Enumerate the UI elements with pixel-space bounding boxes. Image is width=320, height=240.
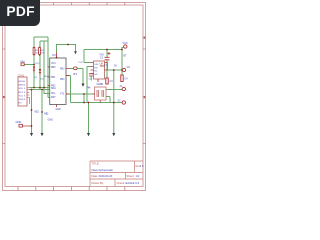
resistor R2 bbox=[39, 48, 41, 55]
pin flag VOUT bbox=[122, 68, 125, 71]
connector J1 pin stubs bbox=[27, 88, 30, 98]
frame row label left B bbox=[3, 96, 5, 98]
svg-text:1/1: 1/1 bbox=[136, 174, 140, 178]
svg-text:RST: RST bbox=[51, 97, 56, 99]
svg-text:VIN: VIN bbox=[94, 64, 98, 66]
svg-text:CON1: CON1 bbox=[18, 74, 25, 77]
IC U1 pin labels bbox=[51, 55, 65, 111]
svg-text:10u: 10u bbox=[104, 65, 108, 67]
svg-text:JP1: JP1 bbox=[73, 73, 78, 76]
gnd arrow b3 bbox=[87, 133, 90, 136]
svg-text:VCC: VCC bbox=[79, 62, 84, 64]
jumper JP1 bbox=[74, 67, 78, 70]
svg-text:VCC: VCC bbox=[51, 63, 56, 65]
wire vcc column x122 bbox=[121, 50, 123, 76]
svg-text:IN: IN bbox=[88, 87, 91, 90]
wire resistor column 1 bbox=[33, 37, 35, 88]
capacitor C2 bbox=[89, 74, 94, 76]
pin flag VCC top right bbox=[124, 45, 127, 48]
wire input cap column bbox=[106, 50, 108, 79]
regulator U2 pin stubs bbox=[91, 63, 108, 74]
svg-text:N$1: N$1 bbox=[35, 111, 40, 114]
regulator U2 pin labels bbox=[94, 64, 98, 76]
capacitor C4 bbox=[121, 75, 123, 82]
wire gnd column left B bbox=[41, 90, 43, 134]
svg-text:RST: RST bbox=[45, 76, 50, 78]
svg-text:5V: 5V bbox=[114, 65, 117, 68]
wire vcc flag stub bbox=[122, 48, 124, 50]
svg-text:BT: BT bbox=[124, 55, 128, 58]
gnd arrow top bbox=[74, 51, 77, 54]
wire IC top pin to gnd rail bbox=[57, 45, 76, 53]
svg-text:2019-03-20: 2019-03-20 bbox=[99, 174, 113, 178]
svg-text:SDA: SDA bbox=[51, 87, 56, 90]
svg-text:VCC: VCC bbox=[35, 63, 40, 65]
gnd arrow b1 bbox=[30, 133, 33, 136]
wire SDA rail bbox=[30, 87, 51, 89]
svg-text:RST: RST bbox=[19, 92, 24, 94]
wire SCL rail bbox=[30, 89, 51, 91]
title block bbox=[90, 161, 143, 187]
svg-text:EN: EN bbox=[94, 67, 97, 69]
wire IC pin down and across bbox=[67, 76, 123, 103]
PDF badge bbox=[0, 0, 40, 26]
regulator U2 bbox=[94, 61, 105, 79]
svg-text:SCL: SCL bbox=[51, 93, 56, 95]
frame row label right A bbox=[144, 37, 146, 39]
svg-text:C4: C4 bbox=[125, 78, 129, 81]
svg-text:D1: D1 bbox=[35, 77, 39, 79]
wire supply drop to regulator bbox=[84, 50, 91, 63]
wire regulator input column bbox=[87, 67, 91, 103]
svg-text:NC: NC bbox=[94, 71, 98, 73]
wire resistor column 2 bbox=[39, 41, 41, 90]
svg-text:VIN: VIN bbox=[100, 53, 104, 56]
svg-text:N$2: N$2 bbox=[44, 113, 49, 116]
pin flag XT1 bbox=[122, 87, 125, 90]
resistor R1 bbox=[33, 48, 35, 55]
IC U1 top pin stub bbox=[56, 52, 58, 58]
frame column ticks top bbox=[54, 3, 125, 6]
IC U1 bottom pin stub bbox=[56, 105, 58, 108]
connector J1 bbox=[18, 77, 27, 106]
net flag VIN bbox=[20, 60, 24, 65]
svg-text:GND: GND bbox=[48, 119, 54, 122]
wire IC right pin to jumper bbox=[70, 69, 84, 84]
connector J1 bottom stub bbox=[29, 98, 31, 105]
capacitor C2 wire bbox=[90, 76, 92, 81]
pin flag XT2 bbox=[122, 101, 125, 104]
gnd arrow mid bbox=[82, 84, 85, 87]
svg-text:VCC: VCC bbox=[123, 42, 128, 45]
crystal Y1 bbox=[93, 87, 107, 103]
diode D2 on column bbox=[33, 67, 35, 71]
frame column ticks bottom bbox=[18, 187, 125, 191]
wire crystal out A bbox=[106, 89, 122, 91]
frame row ticks right bbox=[143, 49, 146, 144]
wire crystal out B bbox=[106, 97, 110, 103]
frame row label right B bbox=[144, 96, 146, 98]
wire gnd column left A bbox=[31, 90, 33, 134]
wire output gnd column bbox=[113, 70, 115, 133]
gnd arrow b2 bbox=[41, 133, 44, 136]
wire column x44 to IC pin bbox=[44, 41, 50, 94]
junction dots bbox=[31, 44, 123, 127]
svg-text:C1: C1 bbox=[100, 57, 104, 60]
wire top supply rail right bbox=[84, 49, 122, 51]
schematic frame inner border bbox=[5, 5, 143, 187]
IC U1 pin stubs left bbox=[48, 67, 51, 86]
svg-text:VO: VO bbox=[127, 66, 131, 69]
svg-text:GND: GND bbox=[56, 109, 61, 111]
IC U1 pin stubs right bbox=[66, 69, 70, 95]
wire from VIN flag bbox=[24, 64, 34, 66]
capacitor C1 bbox=[105, 57, 110, 60]
net flag GND left bbox=[16, 120, 32, 127]
svg-text:PB1: PB1 bbox=[51, 77, 56, 79]
svg-text:1.0: 1.0 bbox=[140, 164, 144, 168]
capacitor C3 bbox=[106, 78, 108, 84]
svg-text:Date:: Date: bbox=[92, 174, 99, 178]
svg-text:EAGLE 9.3: EAGLE 9.3 bbox=[126, 181, 140, 185]
svg-text:New Schematic: New Schematic bbox=[92, 168, 114, 172]
wire crystal gnd drop bbox=[88, 103, 90, 134]
IC U1 bbox=[50, 58, 66, 105]
svg-text:Sheet:: Sheet: bbox=[127, 174, 135, 178]
svg-text:Drawn By:: Drawn By: bbox=[92, 181, 105, 185]
wire regulator output line bbox=[108, 63, 123, 71]
wire VCC rail top left bbox=[34, 36, 48, 38]
capacitor C1 plus bbox=[107, 52, 110, 55]
wire inner rail bbox=[40, 40, 48, 42]
svg-text:C3: C3 bbox=[110, 80, 114, 83]
svg-text:Y1: Y1 bbox=[101, 83, 105, 86]
svg-text:Check:: Check: bbox=[117, 181, 126, 185]
diode D1 on column bbox=[39, 69, 41, 73]
svg-text:PB3: PB3 bbox=[60, 69, 65, 71]
frame row ticks left bbox=[3, 49, 6, 144]
wire column x48 to IC pin bbox=[48, 37, 50, 98]
wire IC to crystal bbox=[67, 94, 95, 103]
svg-text:10k: 10k bbox=[41, 52, 45, 54]
svg-text:VCC: VCC bbox=[19, 95, 24, 97]
svg-text:SCK: SCK bbox=[19, 88, 24, 90]
svg-text:PB4: PB4 bbox=[60, 79, 65, 81]
gnd arrow b4 bbox=[112, 133, 115, 136]
schematic frame outer border bbox=[3, 3, 146, 191]
svg-text:NC: NC bbox=[19, 103, 23, 105]
svg-text:TITLE:: TITLE: bbox=[92, 162, 100, 166]
svg-text:PB0: PB0 bbox=[51, 67, 56, 69]
regulator U2 gnd stub bbox=[97, 79, 99, 82]
svg-text:GND: GND bbox=[16, 120, 22, 124]
svg-text:XT1: XT1 bbox=[60, 93, 65, 95]
svg-text:GD: GD bbox=[94, 74, 98, 76]
